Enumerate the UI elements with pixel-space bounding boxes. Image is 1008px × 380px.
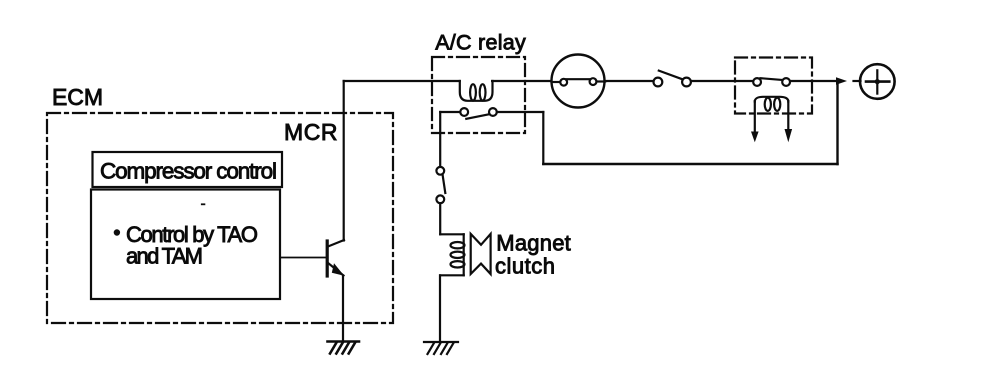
- svg-text:and TAM: and TAM: [126, 243, 203, 268]
- svg-text:Magnet: Magnet: [496, 231, 571, 256]
- svg-text:clutch: clutch: [495, 254, 555, 279]
- svg-text:MCR: MCR: [284, 119, 338, 145]
- svg-text:Compressor control: Compressor control: [100, 159, 277, 184]
- svg-text:ECM: ECM: [52, 84, 103, 110]
- svg-text:A/C relay: A/C relay: [435, 30, 526, 54]
